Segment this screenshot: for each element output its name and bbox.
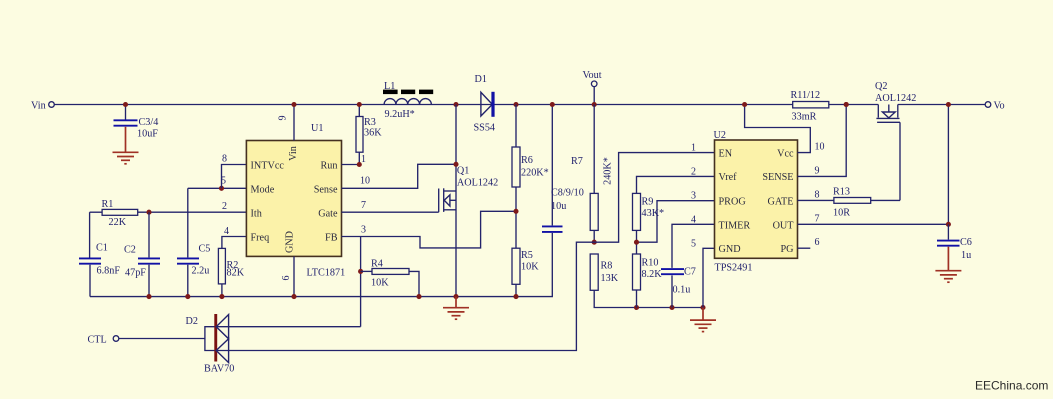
pin number 10 U1: [360, 176, 370, 187]
svg-text:36K: 36K: [364, 128, 382, 139]
svg-text:R4: R4: [371, 259, 383, 270]
svg-text:TIMER: TIMER: [719, 220, 751, 231]
wire PG pin6 stub: [798, 247, 811, 249]
pin number 9 U1 rotated: [278, 116, 289, 121]
svg-text:EEChina.com: EEChina.com: [975, 379, 1048, 393]
svg-text:240K*: 240K*: [603, 157, 614, 185]
svg-text:4: 4: [224, 226, 229, 237]
svg-text:6: 6: [281, 276, 292, 281]
svg-text:220K*: 220K*: [521, 168, 549, 179]
pin number 6 U2: [815, 237, 820, 248]
wire bottom ground rail: [90, 233, 552, 297]
svg-text:Vin: Vin: [288, 146, 299, 161]
wire TIMER pin4 to C7: [672, 224, 715, 268]
pin number 7 U2: [815, 213, 820, 224]
svg-text:9: 9: [278, 116, 289, 121]
node Vo terminal: [985, 101, 1004, 112]
pin number 8 U2: [815, 189, 820, 200]
svg-text:SS54: SS54: [474, 123, 496, 134]
svg-text:CTL: CTL: [88, 335, 107, 346]
svg-text:10R: 10R: [833, 208, 850, 219]
pin number 5 U1: [221, 176, 226, 187]
svg-text:Mode: Mode: [251, 184, 275, 195]
svg-text:D2: D2: [186, 316, 198, 327]
svg-text:C3/4: C3/4: [139, 117, 159, 128]
wire GND pin5 stub: [703, 248, 715, 307]
svg-text:1: 1: [361, 154, 366, 165]
wire D2 top anode to FB: [216, 326, 361, 328]
svg-text:10: 10: [360, 176, 370, 187]
wire FB stub and divider tap: [342, 211, 517, 248]
svg-text:Vout: Vout: [583, 70, 602, 81]
inductor L1: [383, 81, 433, 120]
transistor Q2 AOL1242: [875, 81, 916, 200]
svg-text:2.2u: 2.2u: [192, 266, 210, 277]
node junction dot Run R3: [357, 162, 362, 167]
svg-text:Freq: Freq: [251, 232, 270, 243]
pin number 4 U2: [691, 214, 696, 225]
pin number 9 U2: [815, 165, 820, 176]
node junction dot OUT C6: [946, 222, 951, 227]
svg-text:PG: PG: [780, 244, 794, 255]
svg-text:LTC1871: LTC1871: [307, 268, 346, 279]
resistor R6: [512, 105, 549, 249]
svg-text:R6: R6: [521, 155, 533, 166]
svg-text:Q1: Q1: [457, 166, 469, 177]
svg-text:10: 10: [815, 142, 825, 153]
pin number 2 U2: [691, 166, 696, 177]
svg-text:OUT: OUT: [773, 220, 795, 231]
watermark EEChina.com: [975, 379, 1048, 393]
node junction dot Vout rail: [592, 102, 597, 107]
node junction dot Sense drain: [453, 162, 458, 167]
svg-text:9: 9: [815, 165, 820, 176]
svg-text:82K: 82K: [227, 268, 245, 279]
svg-text:Q2: Q2: [875, 81, 887, 92]
svg-text:R1: R1: [102, 199, 114, 210]
svg-text:C5: C5: [199, 244, 211, 255]
svg-text:2: 2: [222, 201, 227, 212]
capacitor C2: [124, 212, 160, 296]
svg-text:C7: C7: [684, 267, 696, 278]
node junction dot C8 rail: [550, 102, 555, 107]
svg-text:Vref: Vref: [719, 172, 738, 183]
pin number 1 U1: [361, 154, 366, 165]
node junction dot D1 anode rail: [453, 102, 458, 107]
resistor R3: [356, 105, 382, 165]
svg-text:Run: Run: [321, 160, 338, 171]
node Vout terminal: [583, 70, 602, 105]
svg-text:13K: 13K: [601, 273, 619, 284]
svg-text:C2: C2: [124, 245, 136, 256]
resistor R2: [218, 248, 244, 296]
svg-text:Sense: Sense: [314, 184, 338, 195]
resistor R5: [512, 248, 539, 296]
svg-text:FB: FB: [325, 232, 338, 243]
svg-text:1: 1: [691, 143, 696, 154]
diode D1 SS54: [474, 74, 496, 134]
svg-text:43K*: 43K*: [642, 208, 665, 219]
pin number 7 U1: [361, 200, 366, 211]
svg-text:R10: R10: [642, 258, 659, 269]
capacitor C7: [661, 267, 696, 308]
svg-text:R8: R8: [601, 261, 613, 272]
wire Vo vertical to OUT: [947, 105, 949, 225]
wire GATE pin8 stub: [798, 199, 834, 201]
svg-text:7: 7: [815, 213, 820, 224]
svg-text:22K: 22K: [109, 217, 127, 228]
ground below Q1 source: [443, 297, 469, 320]
node junction dot D1 cathode rail: [513, 102, 518, 107]
wire U1 pin9 Vin stub: [293, 105, 295, 141]
resistor R10: [633, 254, 663, 308]
svg-text:R11/12: R11/12: [791, 90, 821, 101]
svg-text:Vo: Vo: [994, 101, 1005, 112]
ground below C3/4: [113, 127, 139, 164]
svg-text:C6: C6: [960, 237, 972, 248]
resistor R9: [633, 193, 665, 254]
wire Gate net U1 pin7 to Q1 gate: [342, 211, 439, 213]
node junction dot R7 R8 EN: [592, 240, 597, 245]
wire INTVcc pin8 jumper: [222, 165, 247, 189]
wire Sense net to Q1 drain: [342, 164, 457, 188]
node junction dot R3 top rail: [357, 102, 362, 107]
node CTL terminal: [88, 335, 205, 346]
op-amp U2 TPS2491 body: [714, 130, 798, 274]
svg-text:4: 4: [691, 214, 696, 225]
svg-text:6.8nF: 6.8nF: [97, 266, 121, 277]
node junction dot SENSE rail: [844, 102, 849, 107]
wire Vref pin2 to R9: [637, 176, 715, 193]
transistor Q1 AOL1242: [439, 166, 499, 213]
capacitor C3/4: [114, 105, 159, 140]
ground below U2: [690, 308, 716, 332]
wire Q1 drain-source vertical: [455, 105, 457, 297]
svg-text:BAV70: BAV70: [204, 364, 234, 375]
svg-text:7: 7: [361, 200, 366, 211]
wire Run pin1 stub: [342, 164, 360, 166]
capacitor C6: [937, 224, 972, 261]
svg-text:GND: GND: [719, 244, 741, 255]
svg-text:10K: 10K: [371, 278, 389, 289]
diode D2 BAV70: [186, 314, 235, 375]
svg-text:10u: 10u: [551, 201, 566, 212]
svg-text:TPS2491: TPS2491: [715, 263, 753, 274]
ground below C6: [935, 247, 961, 283]
svg-text:AOL1242: AOL1242: [875, 93, 916, 104]
node junction dot R1 C2: [146, 210, 151, 215]
svg-text:R3: R3: [364, 117, 376, 128]
resistor R8: [590, 254, 703, 308]
pin number 1 U2: [691, 143, 696, 154]
svg-text:AOL1242: AOL1242: [457, 178, 498, 189]
svg-text:U2: U2: [714, 130, 726, 141]
svg-text:9.2uH*: 9.2uH*: [385, 109, 415, 120]
resistor R11/12: [791, 90, 829, 123]
svg-text:R7: R7: [571, 156, 583, 167]
svg-text:5: 5: [691, 238, 696, 249]
svg-text:8: 8: [815, 189, 820, 200]
wire FB vertical to D2: [360, 237, 362, 327]
svg-text:GND: GND: [285, 231, 296, 253]
resistor R1: [90, 199, 138, 258]
svg-text:Ith: Ith: [251, 208, 262, 219]
svg-text:GATE: GATE: [767, 197, 793, 208]
svg-text:SENSE: SENSE: [762, 172, 793, 183]
svg-text:Vcc: Vcc: [777, 148, 794, 159]
node junction dot Vcc rail: [742, 102, 747, 107]
node junction dot FB R4: [358, 269, 363, 274]
node junction dots on ground rail: [146, 294, 518, 299]
resistor R7: [571, 105, 614, 243]
wire OUT pin7 to C6: [798, 223, 949, 225]
svg-text:INTVcc: INTVcc: [251, 160, 285, 171]
wire D2 bottom anode to EN node: [216, 153, 715, 351]
wire Ith net R1 to U1 pin2: [138, 211, 247, 213]
svg-text:U1: U1: [311, 123, 323, 134]
resistor R4: [361, 259, 419, 297]
op-amp U1 LTC1871 body: [246, 123, 345, 279]
svg-text:47pF: 47pF: [125, 268, 146, 279]
pin number 5 U2: [691, 238, 696, 249]
svg-text:C8/9/10: C8/9/10: [551, 188, 584, 199]
svg-text:6: 6: [815, 237, 820, 248]
svg-text:10K: 10K: [521, 262, 539, 273]
capacitor C1: [79, 243, 120, 297]
svg-text:EN: EN: [719, 148, 733, 159]
pin number 4 U1: [224, 226, 229, 237]
node junction dot U1 pin9: [291, 102, 296, 107]
svg-text:0.1u: 0.1u: [673, 285, 691, 296]
pin number 6 U1 rotated: [281, 276, 292, 281]
svg-text:33mR: 33mR: [792, 112, 817, 123]
svg-text:1u: 1u: [961, 250, 971, 261]
svg-text:C1: C1: [96, 243, 108, 254]
pin number 8 U1: [222, 154, 227, 165]
pin number 2 U1: [222, 201, 227, 212]
pin number 3 U2: [691, 191, 696, 202]
node junction dot Vo rail: [946, 102, 951, 107]
svg-text:R5: R5: [521, 250, 533, 261]
svg-text:8: 8: [222, 154, 227, 165]
wire U1 pin6 GND stub: [293, 256, 295, 296]
node junction dot divider FB: [513, 209, 518, 214]
node junction dot R9 R10 PROG: [634, 240, 639, 245]
capacitor C8/9/10: [542, 105, 584, 232]
node junction dot Mode pin5: [219, 186, 224, 191]
svg-text:Gate: Gate: [318, 208, 338, 219]
wire Mode net to U1 pin5: [188, 187, 247, 189]
pin number 10 U2: [815, 142, 825, 153]
wire top rail Q2 source to Vo: [898, 104, 985, 106]
svg-text:R9: R9: [642, 197, 654, 208]
svg-text:Vin: Vin: [31, 101, 46, 112]
resistor R13: [833, 187, 900, 219]
node Vin terminal: [31, 101, 54, 112]
wire Vcc pin10 to rail: [745, 105, 811, 153]
svg-text:10uF: 10uF: [137, 129, 158, 140]
node junction dot C3/4 on rail: [123, 102, 128, 107]
svg-text:PROG: PROG: [719, 197, 747, 208]
pin number 3 U1: [361, 225, 366, 236]
wire PROG pin3 jumper: [637, 201, 715, 243]
svg-text:2: 2: [691, 166, 696, 177]
svg-text:3: 3: [361, 225, 366, 236]
wire Freq pin4 to R2: [222, 237, 247, 249]
svg-text:8.2K: 8.2K: [642, 269, 663, 280]
svg-text:3: 3: [691, 191, 696, 202]
wire SENSE pin9 to rail: [798, 105, 847, 177]
wire lower ground rail dots: [634, 305, 706, 310]
svg-text:D1: D1: [475, 74, 487, 85]
svg-text:5: 5: [221, 176, 226, 187]
capacitor C5: [177, 188, 210, 296]
wire top rail Vin to Q2 drain: [54, 104, 878, 106]
node junction dot R11/12 right: [844, 102, 849, 107]
svg-text:R13: R13: [833, 187, 850, 198]
